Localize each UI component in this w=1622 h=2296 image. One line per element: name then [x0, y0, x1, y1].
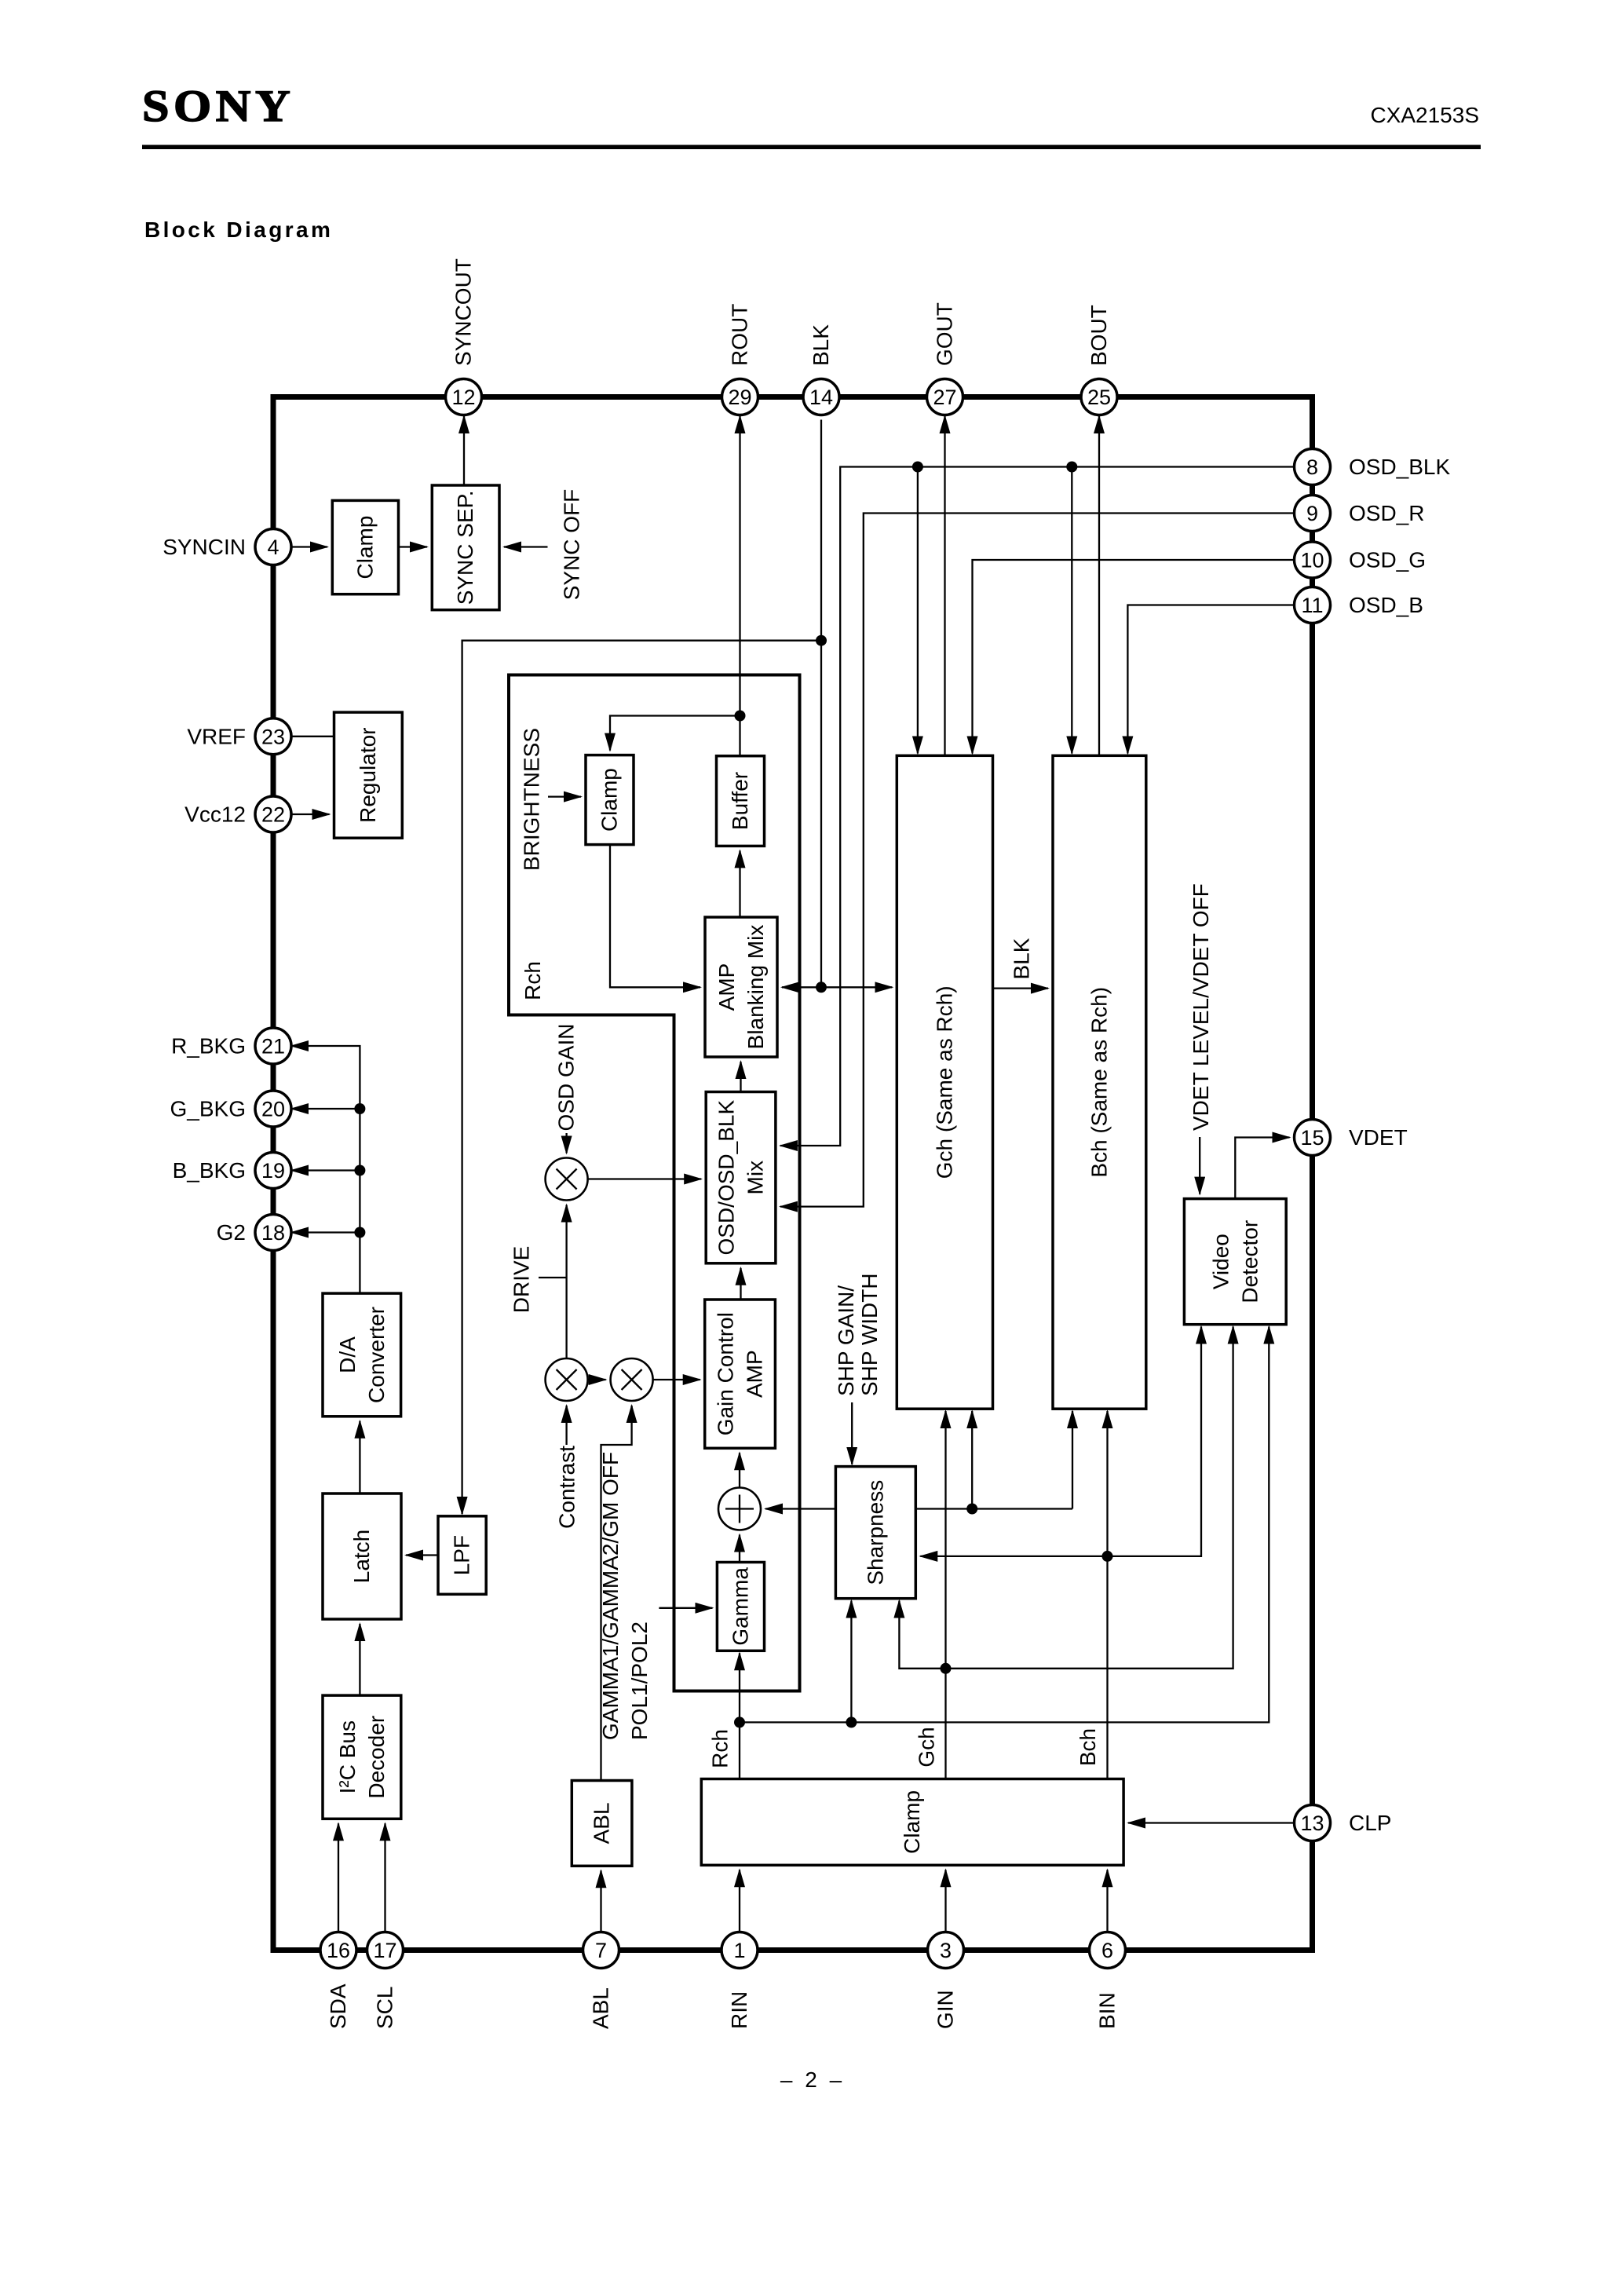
- junction sharpness out: [966, 1504, 977, 1515]
- svg-text:Contrast: Contrast: [554, 1446, 579, 1529]
- svg-text:– 2 –: – 2 –: [780, 2067, 845, 2092]
- wire OSD_G from pin 10 into Gch box: [973, 560, 1295, 754]
- pin 12 SYNCOUT: [446, 379, 482, 415]
- wire VDET control into Video Detector: [1199, 1137, 1200, 1194]
- svg-text:OSD_B: OSD_B: [1349, 593, 1423, 617]
- svg-text:SDA: SDA: [326, 1983, 350, 2029]
- pin 15 VDET: [1295, 1120, 1331, 1156]
- svg-text:OSD_BLK: OSD_BLK: [1349, 455, 1450, 479]
- pin 25 BOUT: [1081, 379, 1117, 415]
- svg-text:ABL: ABL: [589, 1987, 613, 2029]
- wire pin 3 to input Clamp: [944, 1870, 946, 1932]
- wire to pin 20: [291, 1108, 360, 1110]
- svg-text:BIN: BIN: [1095, 1992, 1120, 2029]
- wire AMP Blanking Mix to Buffer: [739, 850, 740, 917]
- wire clamp Rch up to Gamma: [739, 1653, 740, 1779]
- junction on pin14 line: [816, 635, 827, 646]
- wire OSD_R from pin 9 into OSD Mix: [780, 514, 1295, 1207]
- svg-text:GOUT: GOUT: [933, 302, 957, 366]
- junction OSD_BLK to Gch: [912, 462, 923, 473]
- wire pin 17 to I2C decoder: [384, 1823, 385, 1932]
- svg-text:BOUT: BOUT: [1087, 305, 1111, 366]
- svg-text:B_BKG: B_BKG: [173, 1158, 246, 1183]
- svg-text:18: 18: [261, 1221, 285, 1245]
- pin 11 OSD_B: [1295, 587, 1331, 623]
- wire SYNC OFF into SYNC SEP: [504, 546, 548, 547]
- svg-text:19: 19: [261, 1159, 285, 1183]
- svg-text:21: 21: [261, 1035, 285, 1058]
- svg-text:Regulator: Regulator: [356, 727, 380, 822]
- block Regulator: [334, 712, 403, 838]
- multiplier OSD GAIN: [546, 1158, 588, 1201]
- junction B_BKG: [354, 1165, 365, 1176]
- svg-text:22: 22: [261, 803, 285, 827]
- block AMP Blanking Mix: [705, 917, 777, 1057]
- svg-text:BLK: BLK: [809, 324, 833, 366]
- svg-text:Buffer: Buffer: [728, 772, 752, 830]
- svg-text:G_BKG: G_BKG: [170, 1097, 246, 1121]
- svg-text:9: 9: [1306, 502, 1318, 525]
- pin 8 OSD_BLK: [1295, 449, 1331, 485]
- pin 4 SYNCIN: [255, 529, 291, 565]
- svg-text:Rch: Rch: [521, 961, 545, 1000]
- pin 16 SDA: [320, 1932, 356, 1969]
- block Sharpness: [835, 1467, 915, 1599]
- svg-text:SYNC OFF: SYNC OFF: [560, 489, 584, 601]
- block OSD/OSD_BLK Mix: [706, 1092, 776, 1263]
- multiplier Contrast: [546, 1358, 588, 1401]
- svg-text:VREF: VREF: [187, 724, 246, 748]
- wire multiplier to Gain Control AMP: [653, 1379, 700, 1380]
- svg-text:Gch: Gch: [915, 1727, 939, 1767]
- svg-text:23: 23: [261, 725, 285, 748]
- wire Rch to video detector: [740, 1327, 1269, 1723]
- wire Video Detector to pin 15: [1235, 1138, 1289, 1199]
- svg-text:Clamp: Clamp: [900, 1790, 924, 1854]
- pin 13 CLP: [1295, 1805, 1331, 1841]
- wire pin 1 to input Clamp: [739, 1870, 740, 1932]
- wire Contrast into multiplier: [565, 1406, 567, 1445]
- pin 27 GOUT: [927, 379, 963, 415]
- pin 6 BIN: [1090, 1932, 1126, 1969]
- junction G2: [354, 1227, 365, 1238]
- svg-text:14: 14: [809, 386, 833, 409]
- svg-text:SHP GAIN/SHP WIDTH: SHP GAIN/SHP WIDTH: [834, 1273, 882, 1396]
- Rch channel box: [509, 675, 800, 1691]
- wire BRIGHTNESS into Clamp: [548, 795, 581, 797]
- wire Gain Control AMP to OSD Mix: [740, 1268, 741, 1300]
- tick DRIVE: [539, 1277, 567, 1278]
- svg-text:RIN: RIN: [727, 1991, 751, 2029]
- svg-text:8: 8: [1306, 455, 1318, 479]
- wire Sharpness to adder: [765, 1508, 835, 1509]
- wire OSD_BLK into Bch box top: [1071, 467, 1072, 754]
- svg-text:DRIVE: DRIVE: [510, 1246, 534, 1314]
- svg-text:LPF: LPF: [450, 1535, 474, 1575]
- wire I2C decoder to Latch: [359, 1624, 360, 1695]
- wire brightness Clamp to AMP Blanking Mix left input: [610, 845, 700, 988]
- svg-text:Sharpness: Sharpness: [863, 1480, 887, 1585]
- wire Gch crossline to video detector: [946, 1327, 1233, 1669]
- svg-text:25: 25: [1087, 386, 1111, 409]
- junction Rch out: [734, 1717, 745, 1727]
- wire to pin 19: [291, 1169, 360, 1171]
- pin 14 BLK: [803, 379, 839, 415]
- svg-text:OSD_G: OSD_G: [1349, 548, 1426, 572]
- junction OSD_BLK to Bch: [1066, 462, 1077, 473]
- svg-text:1: 1: [733, 1939, 745, 1962]
- svg-text:Bch: Bch: [1076, 1728, 1100, 1766]
- pin 20 G_BKG: [255, 1091, 291, 1127]
- wire Sharpness output right: [915, 1508, 1072, 1509]
- wire BLK into AMP Blanking Mix right input: [782, 986, 821, 988]
- wire Gamma to adder: [739, 1535, 740, 1563]
- svg-text:Block Diagram: Block Diagram: [144, 218, 333, 242]
- block Gamma: [717, 1563, 764, 1651]
- wire D/A converter to BKG pins: [291, 1046, 360, 1293]
- junction Rch/sharpness: [846, 1717, 857, 1727]
- junction Gch line: [941, 1663, 952, 1674]
- wire Latch to D/A converter: [359, 1421, 360, 1493]
- wire OSD_BLK from pin 8: [780, 467, 1295, 1146]
- svg-text:VDET LEVEL/VDET OFF: VDET LEVEL/VDET OFF: [1189, 883, 1213, 1131]
- pin 18 G2: [255, 1215, 291, 1251]
- block Bch: [1053, 755, 1146, 1409]
- svg-text:SYNCOUT: SYNCOUT: [451, 258, 476, 366]
- svg-text:BLK: BLK: [1010, 938, 1034, 979]
- svg-text:Gch (Same as Rch): Gch (Same as Rch): [932, 985, 956, 1179]
- svg-text:6: 6: [1101, 1939, 1113, 1962]
- pin 7 ABL: [583, 1932, 619, 1969]
- pin 9 OSD_R: [1295, 495, 1331, 532]
- svg-text:Latch: Latch: [349, 1530, 374, 1584]
- wire pin23 to Regulator: [291, 736, 334, 737]
- wire clamp Bch up to Bch box: [1106, 1411, 1108, 1779]
- wire clamp Gch up to Gch box: [944, 1411, 946, 1779]
- wire BLK into Gch box: [821, 986, 892, 988]
- wire to pin 18: [291, 1231, 360, 1233]
- block Gain Control AMP: [705, 1300, 776, 1448]
- wire LPF to Latch: [406, 1554, 438, 1556]
- wire pin22 to Regulator: [291, 813, 330, 815]
- svg-text:SYNCIN: SYNCIN: [163, 535, 246, 559]
- pin 3 GIN: [928, 1932, 964, 1969]
- block D/A Converter: [323, 1293, 401, 1417]
- wire multiplier to OSD Mix: [588, 1178, 702, 1179]
- pin 29 ROUT: [722, 379, 758, 415]
- block Clamp (brightness): [586, 755, 634, 845]
- adder (sharpness sum): [718, 1488, 761, 1530]
- junction BLK line: [816, 982, 827, 993]
- svg-text:ROUT: ROUT: [728, 304, 752, 366]
- wire to brightness Clamp: [610, 716, 740, 751]
- svg-text:R_BKG: R_BKG: [171, 1034, 246, 1058]
- block Video Detector: [1184, 1199, 1286, 1325]
- wire Clamp to SYNC SEP: [399, 546, 428, 547]
- junction ROUT/brightness clamp: [735, 711, 746, 722]
- svg-text:Gamma: Gamma: [729, 1567, 753, 1646]
- svg-text:29: 29: [728, 386, 751, 409]
- pin 10 OSD_G: [1295, 542, 1331, 578]
- svg-text:Clamp: Clamp: [353, 516, 377, 579]
- wire pin29 column (ROUT): [739, 416, 740, 756]
- wire Bch branch to video detector: [1108, 1327, 1202, 1556]
- svg-text:Rch: Rch: [707, 1729, 732, 1768]
- svg-text:Bch (Same as Rch): Bch (Same as Rch): [1087, 987, 1111, 1178]
- svg-text:16: 16: [327, 1939, 350, 1962]
- svg-text:Clamp: Clamp: [597, 768, 622, 832]
- wire SYNC SEP to pin 12: [463, 416, 465, 485]
- svg-text:3: 3: [940, 1939, 952, 1962]
- wire pin 6 to input Clamp: [1106, 1870, 1108, 1932]
- svg-text:7: 7: [595, 1939, 607, 1962]
- pin 22 Vcc12: [255, 796, 291, 832]
- wire pin4 to Clamp: [291, 546, 327, 547]
- wire multiplier to multiplier: [588, 1379, 606, 1380]
- wire Gch crossline to Sharpness: [899, 1601, 945, 1669]
- block Gch: [897, 755, 992, 1409]
- svg-text:SYNC SEP.: SYNC SEP.: [453, 491, 477, 605]
- svg-text:17: 17: [373, 1939, 396, 1962]
- wire OSD_BLK into Gch box top: [917, 467, 919, 754]
- svg-text:Vcc12: Vcc12: [184, 803, 246, 827]
- pin 21 R_BKG: [255, 1028, 291, 1064]
- IC outline: [273, 397, 1313, 1951]
- header rule: [142, 145, 1481, 150]
- junction G_BKG: [354, 1103, 365, 1114]
- block Buffer: [717, 756, 765, 846]
- block I2C Bus Decoder: [323, 1695, 401, 1819]
- wire sharpness to Bch box bottom: [1072, 1411, 1073, 1509]
- wire OSD GAIN into multiplier: [565, 1133, 567, 1153]
- wire Bch branch into Sharpness right: [920, 1556, 1107, 1557]
- svg-text:BRIGHTNESS: BRIGHTNESS: [520, 728, 544, 871]
- wire DRIVE multiplier chain vertical: [565, 1205, 567, 1359]
- pin 19 B_BKG: [255, 1153, 291, 1189]
- svg-text:20: 20: [261, 1098, 285, 1121]
- wire Gch box to pin 27 (GOUT): [944, 416, 945, 755]
- svg-text:SCL: SCL: [373, 1987, 397, 2029]
- svg-text:12: 12: [451, 386, 475, 409]
- svg-text:4: 4: [267, 536, 279, 559]
- svg-text:OSD GAIN: OSD GAIN: [554, 1024, 579, 1132]
- svg-text:VDET: VDET: [1349, 1125, 1408, 1150]
- wire pin 16 to I2C decoder: [338, 1823, 339, 1932]
- block LPF: [438, 1516, 486, 1595]
- multiplier Gamma path: [611, 1358, 653, 1401]
- svg-text:10: 10: [1300, 549, 1324, 572]
- wire pin14 column (BLK): [820, 420, 822, 988]
- junction Bch line: [1102, 1551, 1113, 1562]
- wire Rch branch to Sharpness: [850, 1601, 852, 1723]
- svg-text:CXA2153S: CXA2153S: [1370, 103, 1479, 127]
- svg-text:11: 11: [1301, 594, 1323, 617]
- svg-text:ABL: ABL: [590, 1802, 614, 1844]
- wire pin 13 CLP into input Clamp: [1128, 1822, 1294, 1823]
- svg-text:27: 27: [933, 386, 956, 409]
- wire gamma control into Gamma: [659, 1607, 712, 1609]
- wire adder to Gain Control AMP: [739, 1453, 740, 1487]
- wire BLK Gch to Bch: [993, 987, 1049, 989]
- block ABL: [572, 1781, 632, 1866]
- wire OSD_B from pin 11 into Bch box: [1127, 605, 1294, 754]
- wire pin 7 to ABL: [600, 1870, 601, 1932]
- pin 17 SCL: [367, 1932, 404, 1969]
- wire ABL to multiplier: [601, 1406, 632, 1781]
- svg-text:SONY: SONY: [142, 81, 294, 131]
- pin 23 VREF: [255, 718, 291, 755]
- svg-text:G2: G2: [217, 1220, 246, 1245]
- svg-text:13: 13: [1300, 1812, 1324, 1835]
- wire SHP control into Sharpness: [851, 1402, 853, 1464]
- wire sharpness to Gch box bottom: [971, 1411, 973, 1509]
- block SYNC SEP: [432, 485, 499, 610]
- block Latch: [323, 1493, 401, 1619]
- wire OSD Mix to AMP Blanking Mix: [740, 1062, 741, 1092]
- wire Bch box to pin 25 (BOUT): [1098, 416, 1100, 755]
- svg-text:OSD_R: OSD_R: [1349, 501, 1424, 525]
- svg-text:CLP: CLP: [1349, 1811, 1391, 1835]
- block Clamp (sync): [332, 500, 398, 594]
- svg-text:15: 15: [1300, 1126, 1324, 1150]
- block input Clamp: [701, 1779, 1123, 1866]
- pin 1 RIN: [721, 1932, 758, 1969]
- svg-text:GIN: GIN: [933, 1990, 958, 2029]
- wire BLK tap: pin14 column to LPF: [462, 641, 821, 1514]
